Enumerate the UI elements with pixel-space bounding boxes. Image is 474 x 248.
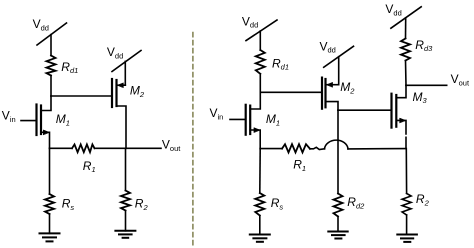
resistor Rd1	[47, 56, 56, 76]
wire Rs to ground	[49, 214, 51, 233]
wire M3 source to node (after small gap)	[405, 137, 407, 148]
resistor R2 (right)	[402, 194, 411, 216]
wire Vdd to Rd1	[50, 35, 52, 56]
wire Vdd to M2 drain	[124, 61, 126, 85]
resistor Rs	[45, 194, 54, 214]
ground (under Rs)	[40, 233, 60, 241]
wire M3 drain node to Rd3	[405, 61, 408, 86]
wire Rd1 to node A'	[259, 74, 261, 93]
wire Vout (right)	[406, 84, 447, 86]
M1 source lead	[41, 132, 50, 148]
M2 drain arrow	[117, 83, 123, 88]
M1 source lead (right)	[250, 130, 260, 149]
wire M1 source to R1	[50, 147, 73, 149]
wire node A to M1 drain	[41, 96, 51, 111]
wire Rd2 to ground	[337, 217, 339, 232]
resistor R1 (right)	[282, 144, 310, 152]
M2 drain lead (right)	[326, 84, 339, 86]
wire M1 source down to Rs	[49, 148, 51, 194]
wire M3 source node down to R2 (right)	[405, 149, 407, 194]
transistor M2 gate bar (right)	[321, 78, 323, 109]
resistor Rd1 (right)	[256, 50, 265, 74]
transistor M2 channel bar	[115, 80, 117, 106]
ground (under R2 right)	[397, 235, 417, 242]
wire Rd1 to node A	[50, 76, 52, 97]
M2 source lead (right)	[326, 102, 339, 111]
wire R1 to hop	[310, 147, 325, 149]
M1 source arrow (right)	[254, 128, 260, 133]
wire Rs to ground (right)	[259, 216, 261, 235]
M3 drain lead	[396, 85, 406, 97]
transistor M1 (right) channel bar	[249, 106, 251, 134]
wire Vin to M1 gate (right)	[230, 118, 246, 120]
wire Vdd to M2 drain (right)	[338, 57, 340, 85]
transistor M2 gate bar	[111, 79, 113, 107]
Vdd supply slash (left, over Rd1)	[37, 23, 67, 45]
wire M1 source down to Rs (right)	[259, 149, 261, 193]
wire M2 source to M3 gate	[338, 109, 392, 111]
wire node A to M2 gate	[51, 95, 112, 97]
dashed separator line	[192, 33, 194, 248]
wire M1 source to R1 (right)	[260, 148, 282, 150]
resistor R2	[121, 191, 130, 211]
ground (under Rd2)	[328, 232, 347, 239]
transistor M2 channel bar (right)	[324, 79, 326, 107]
resistor Rd2	[334, 194, 343, 217]
transistor M1 gate bar	[35, 105, 37, 136]
Vdd supply slash (over M2 right)	[324, 46, 354, 67]
wire Rd3 to Vdd	[405, 18, 407, 39]
transistor M3 gate bar	[390, 94, 392, 128]
transistor M1 channel bar	[40, 106, 42, 135]
resistor Rs (right)	[255, 193, 264, 216]
wire hop arc over Rd2 wire	[325, 140, 349, 149]
wire hop to M3 source node	[348, 148, 406, 150]
M2 source lead	[117, 106, 127, 148]
wire R1 to Vout	[95, 147, 162, 149]
resistor Rd3	[401, 39, 410, 61]
Vdd supply slash (over M2)	[112, 51, 141, 72]
M3 source lead	[396, 120, 406, 134]
transistor M3 channel bar	[395, 95, 397, 127]
resistor R1	[72, 144, 95, 152]
wire node A' to M2 gate	[260, 91, 322, 93]
wire node A' to M1 drain	[250, 92, 260, 109]
ground (under R2)	[115, 231, 135, 238]
M2 drain arrow (right)	[327, 82, 333, 87]
wire R2 to ground (right)	[406, 215, 408, 235]
M1 source arrow	[43, 130, 49, 135]
wire R2 to ground	[125, 211, 127, 231]
M3 source arrow	[400, 118, 406, 123]
Vdd supply slash (top right)	[391, 7, 421, 28]
wire Vdd to Rd1	[259, 31, 261, 50]
ground (under Rs right)	[250, 235, 270, 242]
wire Vin to M1 gate	[21, 120, 37, 122]
Vdd supply slash (over Rd1 right)	[246, 20, 277, 41]
transistor M1 (right) gate bar	[245, 105, 247, 135]
M2 drain lead	[117, 84, 126, 86]
wire M2 source down to Rd2	[337, 110, 339, 193]
wire junction to R2	[125, 148, 127, 190]
